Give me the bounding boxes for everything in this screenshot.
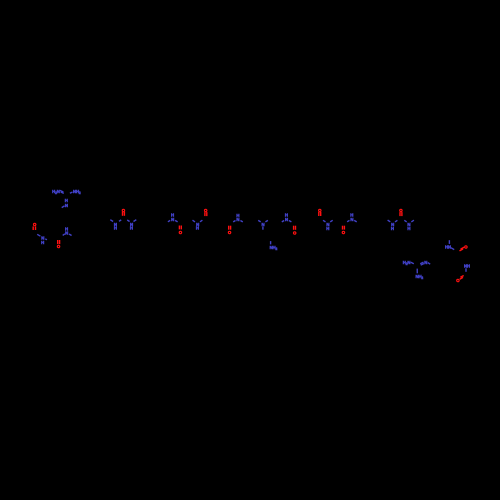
bond stub amideF N-chain right <box>330 220 333 222</box>
svg-text:N: N <box>65 231 68 236</box>
double bond C=O amideB <box>179 226 181 230</box>
svg-text:N: N <box>350 217 353 222</box>
bond stub amideD N-chain right <box>240 221 242 222</box>
double bond C=O amideC <box>205 212 207 216</box>
svg-text:N: N <box>424 260 427 265</box>
double bond C=O ureaU2 <box>400 212 402 216</box>
bond stub G2 H2N-C <box>411 262 414 264</box>
bond stub G1 C=N(H2N) upper dash <box>60 190 64 192</box>
svg-text:H: H <box>41 240 44 245</box>
svg-text:N: N <box>171 217 174 222</box>
bond stub ureaU2 N1-chain <box>388 220 391 222</box>
bond stub amideC N-chain left <box>193 220 196 222</box>
bond stub tertN up-right <box>265 220 268 222</box>
bond stub G2 C=N lower dash <box>421 264 424 266</box>
double bond C=O amideF <box>319 212 321 216</box>
bond stub ureaU2 N1-C <box>395 220 397 222</box>
bond stub ureaU1 N2-C <box>127 220 129 222</box>
svg-text:H: H <box>407 226 410 231</box>
bond stub tertN down <box>262 227 264 230</box>
double bond C=O acetyl <box>33 226 35 230</box>
bond stub acetyl C-N <box>37 234 40 236</box>
bond stub G2 C-NH2 vertical <box>416 269 418 274</box>
double bond C=O methylamide <box>460 247 465 251</box>
svg-text:NH: NH <box>464 264 470 269</box>
bond stub amideD N-C(O) <box>233 221 235 222</box>
bond stub amideC N-C(O) <box>200 220 202 222</box>
bond stub amideA N-C(O) <box>63 234 65 236</box>
double bond C=O acetamide end <box>460 276 464 280</box>
double bond C=O amideD <box>229 226 231 230</box>
double bond C=O ureaU1 <box>123 212 125 216</box>
bond stub ureaU2 N2-C <box>404 220 406 222</box>
double bond C=O amideA <box>58 240 60 244</box>
bond stub amideA N-chain <box>69 234 72 236</box>
bond stub CH2-NH2 branch <box>270 241 272 244</box>
bond stub G1 C=N(H2N) lower dash <box>61 192 64 193</box>
svg-text:HN: HN <box>445 245 451 250</box>
bond stub amideG N-C(O) <box>347 220 349 221</box>
svg-text:H: H <box>196 226 199 231</box>
bond stub G2 C=N upper dash <box>420 262 423 264</box>
bond stub ureaU1 N2-chain <box>134 220 137 222</box>
bond stub G2 N-chain <box>428 263 430 265</box>
bond stub amideF N-C(O) <box>323 220 326 222</box>
bond stub amideG N-chain right <box>354 220 357 222</box>
double bond C=O amideG <box>343 226 345 230</box>
svg-text:N: N <box>262 222 265 227</box>
bond stub amideB N-chain left <box>168 220 170 221</box>
svg-text:H: H <box>326 226 329 231</box>
double bond C=O amideE <box>294 226 296 230</box>
bond stub amideE N-chain left <box>282 221 284 222</box>
svg-text:N: N <box>236 217 239 222</box>
bond stub acetyl N-CH <box>45 239 47 240</box>
bond stub NH-C(O) vertical end <box>465 268 467 272</box>
bond stub HN-C(O) right <box>451 248 454 250</box>
bond stub amideE N-C(O) <box>289 221 292 222</box>
bond stub amideB N-C(O) <box>175 220 178 222</box>
svg-text:H: H <box>130 226 133 231</box>
bond stub ureaU1 N1-chain <box>110 220 113 222</box>
bond stub G1 C-NH2 <box>70 192 73 193</box>
svg-text:N: N <box>65 203 68 208</box>
bond stub ureaU2 N2-chain <box>411 220 414 222</box>
bond stub tertN up-left <box>258 220 261 222</box>
bond stub methyl-N vertical <box>448 240 450 244</box>
bond stub ureaU1 N1-C <box>119 220 121 221</box>
svg-text:N: N <box>285 217 288 222</box>
svg-text:H: H <box>114 226 117 231</box>
bond stub G1 N1-chain <box>62 206 65 208</box>
svg-text:H: H <box>391 226 394 231</box>
